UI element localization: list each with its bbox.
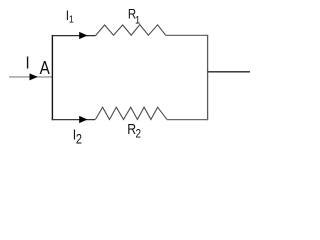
svg-text:A: A: [40, 58, 51, 79]
arrow: current I direction: [30, 73, 38, 80]
resistor R1: [96, 25, 166, 36]
resistor R2: [95, 107, 167, 119]
wire: bottom branch right segment: [167, 119, 208, 121]
svg-text:2: 2: [76, 132, 82, 147]
node A label: [40, 58, 51, 79]
wire: top branch left segment: [52, 35, 96, 37]
wire: right vertical bus: [207, 35, 209, 120]
wire: top branch right segment: [166, 34, 208, 36]
arrow: current I2 direction: [79, 116, 87, 123]
wire: input lead into node A: [9, 76, 52, 78]
svg-text:2: 2: [136, 128, 142, 141]
svg-text:1: 1: [135, 15, 140, 27]
wire: left vertical bus: [51, 35, 53, 120]
label I (input current): [25, 53, 29, 72]
wire: bottom branch left segment: [52, 119, 95, 121]
arrow: current I1 direction: [79, 32, 87, 39]
label R2: [127, 121, 136, 137]
label I1: [66, 7, 69, 23]
label R1: [128, 6, 136, 22]
label I2: [73, 126, 76, 142]
wire: output lead: [208, 71, 250, 73]
svg-text:I: I: [25, 53, 29, 72]
svg-text:1: 1: [69, 14, 74, 26]
